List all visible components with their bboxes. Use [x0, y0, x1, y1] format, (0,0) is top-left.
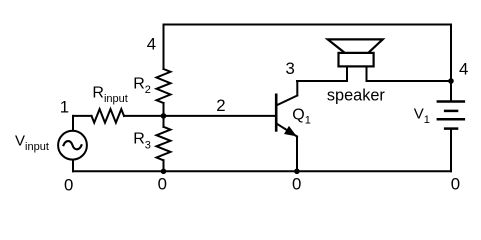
svg-text:2: 2	[216, 96, 225, 115]
svg-text:4: 4	[147, 35, 156, 54]
svg-text:4: 4	[459, 59, 468, 78]
svg-text:0: 0	[64, 175, 73, 194]
svg-text:1: 1	[60, 98, 69, 117]
svg-text:speaker: speaker	[327, 87, 386, 105]
svg-text:0: 0	[158, 175, 167, 194]
svg-text:3: 3	[286, 59, 295, 78]
svg-text:0: 0	[292, 175, 301, 194]
svg-text:0: 0	[451, 175, 460, 194]
